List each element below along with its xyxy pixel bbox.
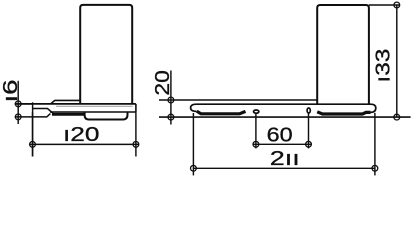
dim 60: left extension line (255, 114, 257, 149)
dim 211: dimension line (193, 167, 375, 169)
dim 16: top circle marker (15, 101, 21, 107)
svg-text:60: 60 (267, 125, 293, 147)
left view: glass seat shadow line (56, 105, 133, 107)
dim 211: right extension line (374, 113, 376, 175)
dim 60: left circle marker (253, 141, 259, 147)
dim 120: left extension (wall line continues) (32, 112, 34, 156)
dim 60: right extension line (308, 113, 310, 148)
left view: underside upper profile line (33, 109, 53, 114)
dim 211: left extension line (192, 113, 194, 175)
dim 120: left circle marker (30, 142, 36, 148)
dim 120: right extension line (135, 112, 137, 156)
left view: underside bottom stub (33, 114, 51, 117)
left view: plate right edge (135, 104, 137, 112)
right view: left dish recess band (197, 111, 246, 114)
dim 120: dimension line (30, 143, 139, 145)
dim 133: bottom circle marker (394, 114, 400, 120)
dim 16: dimension line (17, 81, 19, 124)
right view: shelf plate outline with rounded ends (191, 104, 376, 112)
dim 60: right circle marker (306, 141, 312, 147)
dim 16: bottom circle marker (15, 114, 21, 120)
svg-text:ı33: ı33 (373, 49, 395, 83)
left view: shelf plate top edge (15, 103, 136, 105)
right view: left drain hole (254, 110, 259, 113)
dim 16: top extension line (15, 103, 33, 105)
left view: wall line (32, 102, 34, 156)
left view: wall mount step (51, 100, 80, 103)
right view: right dish recess band (317, 112, 370, 114)
left view: plate bottom edge (50, 111, 136, 113)
dim 20: dimension line (170, 71, 172, 125)
left view: dish recess thick band (52, 113, 86, 116)
svg-text:ı20: ı20 (63, 124, 100, 146)
dim 211: right circle marker (372, 165, 378, 171)
svg-text:ı6: ı6 (0, 80, 22, 103)
svg-text:20: 20 (152, 70, 174, 96)
dim 16: bottom extension line (15, 116, 33, 118)
dim 20: top circle marker (168, 97, 174, 103)
right view: right drain hole (307, 108, 310, 113)
dim 133: top circle marker (394, 2, 400, 8)
dim 60: dimension line (253, 143, 312, 145)
dim 120: right circle marker (133, 142, 139, 148)
left view: hanging tab below plate (85, 112, 128, 120)
left view: glass tumbler side outline (80, 5, 132, 104)
dim 133: top extension line (glass top extended) (369, 4, 400, 6)
svg-text:2ıı: 2ıı (270, 148, 300, 170)
right view: bottom tray edge line (159, 116, 411, 118)
dim 133: dimension line (396, 5, 398, 117)
dim 211: left circle marker (191, 165, 197, 171)
right view: glass tumbler front outline (317, 5, 369, 104)
dim 20: bottom circle marker (168, 114, 174, 120)
right view: back rail top line (159, 99, 317, 101)
